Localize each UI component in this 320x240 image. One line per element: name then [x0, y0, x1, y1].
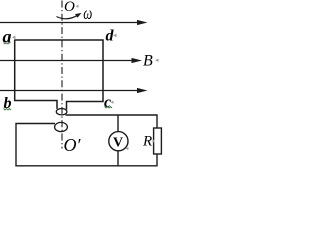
speckle under a: [4, 43, 10, 44]
artifact mark after c: [111, 101, 114, 104]
svg-text:O′: O′: [64, 135, 82, 155]
svg-text:d: d: [106, 28, 115, 45]
artifact mark after B: [155, 59, 159, 63]
svg-text:R: R: [142, 134, 152, 150]
coil loop abcd: top + right side + wire to lower ring: [15, 40, 103, 110]
external circuit: upper-right wire from ring 1: [66, 115, 158, 128]
arrowhead rotation: [75, 13, 82, 18]
voltmeter V: [109, 132, 128, 151]
resistor R box: [154, 128, 162, 154]
artifact mark after d: [113, 34, 117, 38]
coil left side + wire b to upper ring: [15, 40, 57, 109]
field line B2 (middle): [0, 60, 134, 62]
svg-text:O: O: [64, 0, 75, 15]
axis OO' (dash-dot rotation axis): [61, 1, 63, 149]
svg-text:B: B: [143, 53, 153, 70]
artifact mark after a: [12, 36, 16, 40]
squiggle under c: [105, 107, 113, 109]
artifact mark after O: [76, 5, 79, 8]
svg-text:ω: ω: [83, 4, 92, 24]
slip ring 2 (lower): [55, 122, 68, 131]
squiggle under b: [4, 109, 12, 111]
svg-text:V: V: [113, 136, 123, 151]
arrowhead B1: [137, 20, 148, 25]
slip ring 1 (upper): [56, 109, 67, 115]
svg-text:c: c: [104, 94, 111, 111]
arrowhead B3: [137, 88, 148, 93]
field line B3 (bottom): [0, 90, 139, 92]
field line B1 (top): [0, 22, 139, 24]
artifact mark at voltmeter: [126, 147, 129, 150]
rotation arc: [57, 15, 79, 19]
arrowhead B2: [132, 58, 143, 63]
artifact mark after R: [152, 140, 155, 143]
external circuit: lower-left wire from ring 2: [16, 124, 157, 166]
voltmeter branch wires: [117, 115, 119, 132]
